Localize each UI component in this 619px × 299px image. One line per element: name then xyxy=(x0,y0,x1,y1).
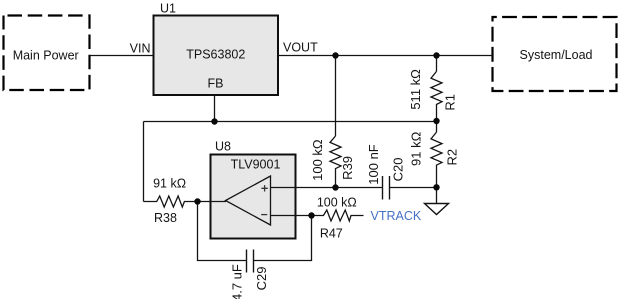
svg-text:FB: FB xyxy=(208,77,224,91)
svg-text:C29: C29 xyxy=(254,267,269,291)
svg-text:100 nF: 100 nF xyxy=(366,144,381,185)
svg-text:U1: U1 xyxy=(160,2,176,16)
svg-text:100 kΩ: 100 kΩ xyxy=(310,139,325,181)
svg-text:VOUT: VOUT xyxy=(283,41,318,55)
svg-text:R2: R2 xyxy=(444,149,459,166)
svg-text:91 kΩ: 91 kΩ xyxy=(408,131,423,166)
svg-text:511 kΩ: 511 kΩ xyxy=(408,69,423,110)
svg-text:VIN: VIN xyxy=(130,42,151,56)
svg-text:R47: R47 xyxy=(320,227,343,241)
svg-text:91 kΩ: 91 kΩ xyxy=(153,177,186,191)
svg-text:4.7 uF: 4.7 uF xyxy=(229,264,244,299)
svg-text:C20: C20 xyxy=(390,158,405,182)
svg-text:VTRACK: VTRACK xyxy=(371,209,422,223)
svg-text:R38: R38 xyxy=(154,211,177,225)
svg-text:Main Power: Main Power xyxy=(13,48,79,62)
svg-text:100 kΩ: 100 kΩ xyxy=(317,196,357,210)
svg-text:R39: R39 xyxy=(340,156,355,180)
svg-text:U8: U8 xyxy=(215,140,231,154)
svg-text:TLV9001: TLV9001 xyxy=(231,157,281,171)
svg-text:TPS63802: TPS63802 xyxy=(186,48,245,62)
svg-text:R1: R1 xyxy=(442,94,457,111)
svg-text:System/Load: System/Load xyxy=(520,48,593,62)
